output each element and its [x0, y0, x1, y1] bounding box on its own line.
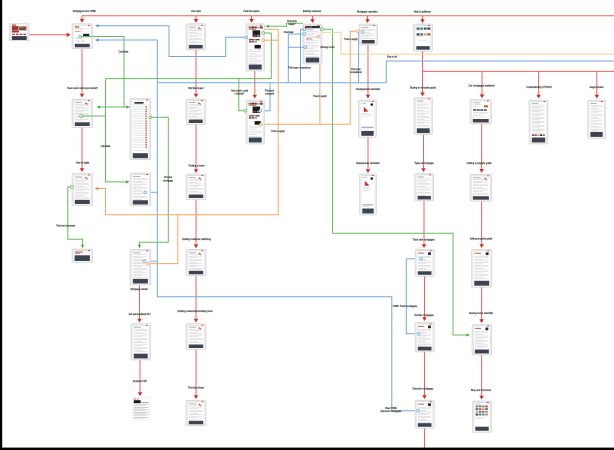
svg-text:Discount mortgages: Discount mortgages: [381, 410, 403, 413]
svg-text:Find the buyers: Find the buyers: [243, 10, 260, 13]
svg-text:Finding a property guide: Finding a property guide: [466, 162, 492, 165]
svg-text:View HSBC: View HSBC: [385, 408, 397, 410]
svg-text:Selling property guide: Selling property guide: [470, 238, 493, 241]
svg-text:Buying to renovate guide: Buying to renovate guide: [410, 87, 436, 90]
svg-text:Existing customer: Existing customer: [303, 10, 322, 13]
svg-text:How much could you borrow?: How much could you borrow?: [67, 87, 98, 90]
svg-text:Help & guidance: Help & guidance: [414, 12, 432, 14]
svg-text:First year comparison: First year comparison: [288, 67, 311, 70]
svg-text:Mortgages from HSBC: Mortgages from HSBC: [73, 10, 97, 13]
svg-text:How to apply: How to apply: [344, 38, 358, 41]
svg-text:First time: First time: [287, 20, 297, 23]
svg-text:First time buyer: First time buyer: [188, 386, 204, 389]
svg-text:Jargon buster: Jargon buster: [589, 86, 603, 89]
svg-text:Overpayment calculator: Overpayment calculator: [356, 88, 381, 91]
svg-text:Keyfacts PDF: Keyfacts PDF: [133, 380, 148, 383]
svg-text:Mortgage results: Mortgage results: [130, 288, 148, 291]
svg-text:Repayments calculator: Repayments calculator: [356, 162, 380, 165]
svg-text:Finding a home: Finding a home: [188, 165, 205, 167]
svg-text:First year: First year: [351, 68, 361, 71]
svg-text:How to apply: How to apply: [271, 130, 285, 133]
svg-text:Buy your first home: Buy your first home: [471, 389, 492, 392]
svg-text:Types of mortgage: Types of mortgage: [414, 162, 434, 165]
svg-text:Tracker mortgages: Tracker mortgages: [414, 314, 434, 317]
svg-text:Discount mortgages: Discount mortgages: [413, 388, 435, 391]
svg-text:Mortgage calculator: Mortgage calculator: [357, 11, 378, 14]
svg-text:Existing customer switching: Existing customer switching: [182, 238, 211, 241]
svg-text:Choose: Choose: [164, 177, 173, 179]
svg-text:HSBC Track mortgages: HSBC Track mortgages: [393, 305, 418, 308]
svg-text:buyer?: buyer?: [288, 23, 296, 26]
svg-text:compare: compare: [265, 93, 275, 96]
svg-text:Our rates: Our rates: [191, 10, 202, 13]
svg-text:Our mortgages explained: Our mortgages explained: [469, 85, 496, 88]
svg-text:comparison: comparison: [350, 71, 363, 74]
svg-text:first time buyer: first time buyer: [188, 87, 203, 90]
svg-text:Moving home: Moving home: [321, 47, 336, 49]
svg-text:Moving home checklist: Moving home checklist: [469, 312, 493, 315]
svg-text:How to apply: How to apply: [313, 95, 327, 98]
svg-text:Calculate: Calculate: [101, 145, 111, 148]
svg-text:How to apply: How to apply: [76, 162, 90, 165]
svg-text:Understanding LTV/SVR: Understanding LTV/SVR: [526, 86, 552, 89]
svg-text:Find and: Find and: [265, 91, 275, 93]
svg-text:Existing customer borrowing mo: Existing customer borrowing more: [177, 310, 213, 313]
svg-text:mortgage: mortgage: [163, 180, 174, 183]
svg-text:Calculate: Calculate: [119, 51, 129, 54]
svg-text:Buy to let: Buy to let: [387, 56, 397, 59]
svg-text:How much could: How much could: [231, 91, 249, 93]
svg-text:I borrow?: I borrow?: [235, 93, 245, 96]
svg-text:Overview: Overview: [284, 31, 294, 34]
svg-text:Find and compare: Find and compare: [56, 225, 75, 228]
svg-text:Track rate mortgages: Track rate mortgages: [413, 239, 436, 242]
svg-text:Get personalised KFI: Get personalised KFI: [129, 313, 151, 316]
